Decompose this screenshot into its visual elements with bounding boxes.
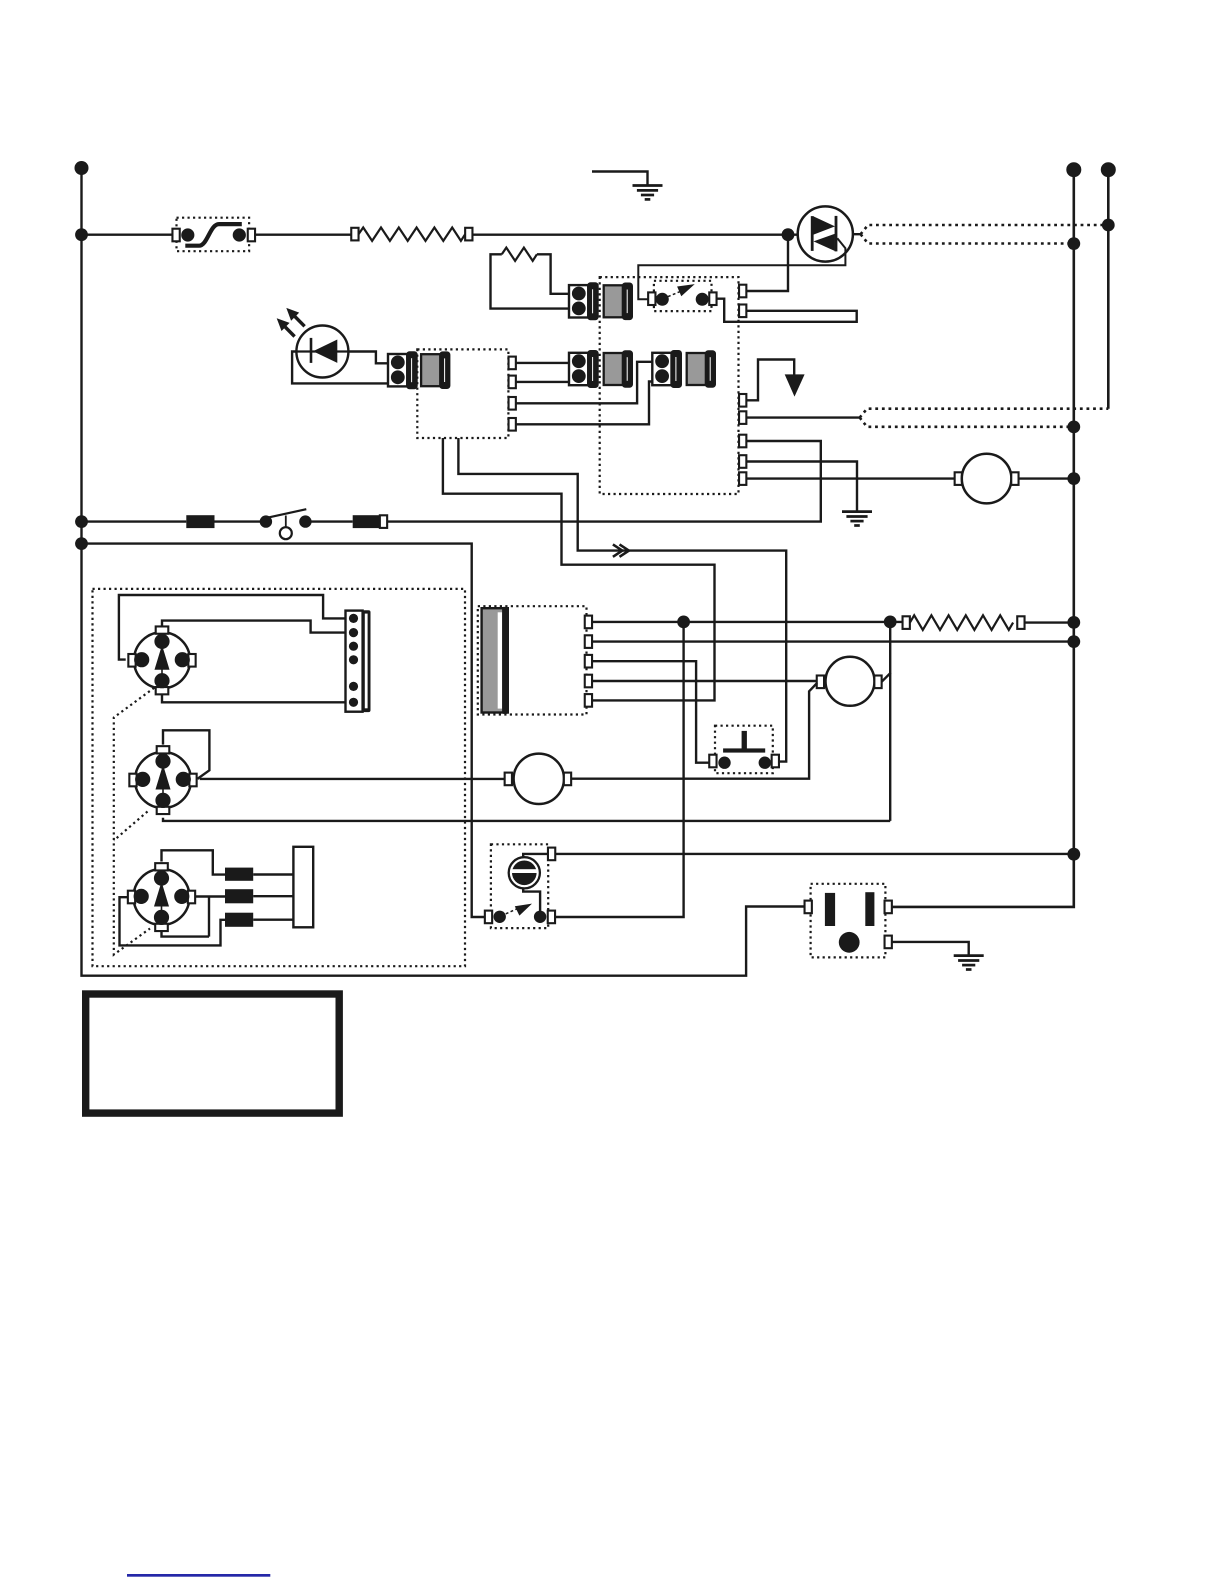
power outlet CN1 ground hole (839, 932, 860, 953)
node: junction pin I line / thermo branch (677, 616, 690, 629)
power outlet CN1 right slot (865, 892, 874, 926)
wire: pin 1 riser to top line (746, 235, 788, 291)
power outlet CN1 left slot (825, 893, 835, 926)
relay switch S2 arrow head (677, 284, 695, 296)
wire: fan motor M1 to rail A (1019, 477, 1074, 479)
thermal fuse F1 left contact dot (181, 228, 194, 241)
dispenser module A3 dotted outline (478, 606, 587, 714)
harness W1 dotted cable upper run (861, 225, 1109, 234)
node: lamp line on left rail (75, 515, 88, 528)
relay switch S2 left terminal (648, 292, 655, 305)
control board pin 6 (739, 455, 746, 468)
harness W1 dotted cable lower run (861, 234, 1074, 243)
wire: pin C to plug P4 (516, 362, 653, 404)
wire: MC2 top tab jumper to right tab (163, 730, 209, 779)
wire: pin IV to motor M2 left terminal (592, 680, 817, 682)
door switch S1 plunger stem (285, 516, 287, 528)
thermal fuse F1 left terminal (172, 229, 179, 242)
connector plug P1 (569, 284, 598, 320)
wire: top line left segment to thermal fuse (82, 233, 173, 235)
ground: top chassis ground (592, 172, 663, 200)
resistor R1 left terminal (351, 228, 358, 241)
wire: motor M2 right drop to icemaker line (889, 673, 891, 821)
resistor R3 left terminal (903, 616, 910, 629)
thermal fuse F1 S-shaped element (185, 224, 242, 246)
triac Q1 upper triangle (814, 216, 836, 234)
terminal strip TB1 contact dots (349, 614, 358, 707)
wire: top line fuse to resistor R1 (255, 233, 351, 235)
LED D1 emission arrow 1 (286, 308, 304, 326)
wire: MC3 bottom tab to branch (162, 931, 210, 937)
ground: control board ground (842, 512, 872, 526)
thermostat TH1 right terminal (548, 911, 555, 924)
node: harness W1 on rail B (1102, 219, 1115, 232)
wire: triac gate lead (638, 238, 845, 299)
start switch S3 left contact dot (718, 757, 730, 769)
wire: top line resistor to triac (472, 233, 798, 235)
ice motor connector MC2 (129, 746, 196, 814)
relay switch S2 dotted box on control board (654, 281, 712, 311)
wire: TH1 bulb to top terminal (523, 854, 548, 857)
LED D1 internal lead (297, 350, 348, 352)
display board pin D (509, 418, 516, 431)
control board pin 1 (739, 285, 746, 298)
wire: display board lead 1 to module pin V (443, 438, 715, 700)
valve connector MC3 (128, 863, 195, 931)
wire: pin 6 to board ground (746, 462, 857, 511)
LED D1 triangle (313, 340, 337, 363)
power outlet CN1 dotted box (811, 884, 886, 958)
wire: MC3 right tab to coil block 2 (195, 895, 225, 897)
door switch S1 left contact dot (260, 515, 272, 527)
wire: MC3 left tab loop to coil block 3 (120, 897, 226, 945)
wire: coil block 3 to manifold (253, 919, 293, 921)
start switch S3 dotted box (715, 726, 773, 774)
door switch S1 blade (269, 509, 307, 517)
compressor motor M2 left terminal (817, 676, 824, 689)
connector plug P4 (652, 351, 681, 387)
power outlet CN1 left terminal (805, 901, 812, 914)
harness W2 dotted cable lower run (860, 418, 1074, 427)
node: rail A top terminal (1066, 162, 1081, 177)
wire: pin I line to resistor R3 (592, 621, 903, 623)
wire: TH1 bulb to switch contact (523, 888, 540, 911)
wire: display board lead 2 to start switch (458, 438, 786, 762)
fan motor M1 left terminal (955, 472, 962, 485)
control board pin 5 (739, 435, 746, 448)
compressor motor M2 right terminal (874, 676, 881, 689)
wire: lamp line between block1 and door switch (215, 520, 266, 522)
wire: MC3 top tab to coil block 1 (162, 850, 226, 874)
wire: TH1 top terminal to rail A (555, 853, 1074, 855)
node: top-left terminal dot (75, 161, 89, 175)
display board pin B (509, 376, 516, 389)
dispenser module A3 gray header (482, 607, 508, 714)
thermostat TH1 actuator dashed line (506, 909, 518, 914)
thermostat TH1 arrow head (515, 904, 532, 916)
connector receptacle J1 on control board (604, 284, 632, 319)
wire: LED cathode return lead to plug P2 (292, 352, 389, 384)
node: defrost line on left rail (75, 537, 88, 550)
triac Q1 MT2 bar (835, 216, 838, 252)
lamp socket block 1 (186, 515, 214, 528)
thermal fuse F1 dotted enclosure (177, 218, 250, 252)
resistor R3 zigzag element (910, 615, 1013, 630)
resistor R2 left lead (491, 254, 570, 308)
wire: resistor R3 to rail A (1025, 621, 1074, 623)
start switch S3 left terminal (709, 755, 716, 768)
thermostat TH1 left contact dot (494, 911, 506, 923)
fan motor M1 body (962, 454, 1012, 504)
compressor motor M2 body (826, 657, 875, 706)
node: harness W2 on rail A (1067, 421, 1080, 434)
resistor R3 right terminal (1017, 616, 1024, 629)
node: motor M1 on rail A (1067, 472, 1080, 485)
wire: motor M2 left drop to auger line (571, 683, 817, 779)
relay switch S2 actuator dashed line (668, 292, 680, 297)
machine compartment dotted enclosure (93, 589, 466, 966)
wire: MC1 top tab to terminal strip row 2 (162, 621, 346, 633)
dotted linkage chain MC1-MC2-MC3 (114, 688, 154, 955)
triac Q1 body circle (798, 206, 853, 261)
lamp socket block 2 (353, 515, 381, 528)
relay switch S2 left contact dot (656, 293, 669, 306)
wire: thermo branch from pin I line to thermostat (555, 622, 684, 917)
relay switch S2 right contact dot (696, 293, 709, 306)
triac Q1 MT1 bar (811, 216, 814, 251)
control board pin 3 (739, 394, 746, 407)
thermostat TH1 left terminal (485, 911, 492, 924)
wire: pin 5 to lamp line (387, 441, 821, 522)
valve coil block 3 (225, 913, 253, 927)
start switch S3 right terminal (772, 755, 779, 768)
connector receptacle J4 on control board (687, 351, 715, 386)
wire: pin D to plug P4 (516, 382, 653, 425)
display board pin C (509, 397, 516, 410)
control board pin 2 (739, 305, 746, 318)
thermostat TH1 top terminal (548, 848, 555, 861)
wire: coil block 2 to manifold (253, 895, 293, 897)
wire: lamp line between switch and block2 (305, 520, 352, 522)
control board pin 4 (739, 411, 746, 424)
control board pin 7 (739, 472, 746, 485)
wire: coil block 1 to manifold (253, 873, 293, 875)
auger motor M3 right terminal (564, 773, 571, 786)
node: resistor R3 on rail A (1067, 616, 1080, 629)
wire: defrost line to thermostat (82, 544, 486, 917)
node: junction L1/top wire (75, 228, 88, 241)
wire: right vertical rail B (1107, 170, 1110, 409)
wire: triac output to harness tip (853, 233, 861, 235)
LED D1 emission arrow 2 (277, 318, 295, 336)
wire: MC1 left tab loop to terminal strip row 1 (119, 595, 346, 660)
ground: outlet earth ground (954, 956, 984, 970)
fan motor M1 right terminal (1011, 472, 1018, 485)
wire: pin 7 to fan motor M1 (746, 477, 955, 479)
resistor R2 right lead (537, 254, 569, 293)
wire: left supply rail vertical and bottom rail (82, 168, 805, 976)
node: junction at triac MT1 branch (782, 228, 795, 241)
terminal strip TB1 body (346, 610, 371, 712)
harness W2 dotted cable upper run (860, 409, 1109, 418)
thermostat TH1 right contact dot (534, 911, 546, 923)
auger motor M3 body (514, 754, 564, 804)
chevron: cable continuation marker (613, 544, 629, 556)
wire: heater loop from pin 2 to switch S2 (717, 299, 857, 322)
note box (empty legend) (86, 994, 340, 1113)
wire: pin 4 to harness W2 tip (746, 416, 859, 418)
node: TH1 line on rail A (1067, 848, 1080, 861)
valve manifold body (293, 847, 313, 928)
resistor R2 zigzag element (502, 248, 537, 261)
thermal fuse F1 right contact dot (233, 228, 246, 241)
wire: lamp line left segment (82, 520, 187, 522)
LED D1 cathode bar (310, 338, 313, 363)
connector plug P3 (569, 351, 598, 387)
display board pin A (509, 357, 516, 370)
auger motor connector MC1 (128, 626, 195, 694)
node: harness W1 on rail A (1067, 237, 1080, 250)
arrow: program down arrow (785, 374, 805, 396)
door switch S1 plunger circle (280, 527, 292, 539)
wire: pin II line to rail A (592, 640, 1074, 642)
wire: motor M2 right riser to pin I line (882, 622, 891, 682)
relay switch S2 right terminal (709, 292, 716, 305)
defrost thermostat TH1 dotted box (491, 844, 548, 928)
door switch S1 right contact dot (299, 515, 311, 527)
LED D1 body circle (296, 326, 348, 378)
node: pin II line on rail A (1067, 635, 1080, 648)
valve coil block 2 (225, 889, 253, 903)
connector receptacle J3 on control board (604, 351, 632, 386)
wire: pin 3 to program arrow (746, 360, 794, 401)
wire: pin III to start switch left (592, 661, 710, 763)
wire: pin A to plug P3 (516, 362, 569, 364)
connector plug P2 (LED harness) (388, 352, 417, 388)
thermostat TH1 sensor bulb (509, 857, 540, 888)
wire: LED anode lead to plug P2 (348, 352, 389, 364)
wire: right vertical rail A (892, 170, 1074, 907)
triac Q1 lower triangle (814, 234, 835, 251)
wire: pin B to plug P3 (516, 381, 569, 383)
connector receptacle J2 on display board (421, 353, 449, 388)
lamp line terminal tab (380, 515, 387, 528)
node: rail B top terminal (1101, 162, 1116, 177)
auger motor M3 left terminal (505, 773, 512, 786)
start switch S3 right contact dot (759, 757, 771, 769)
start switch S3 T actuator (723, 731, 765, 753)
dispenser module pin I (585, 616, 592, 629)
dispenser module pin IV (585, 675, 592, 688)
display board A2 dotted outline (417, 349, 508, 438)
power outlet CN1 ground terminal (885, 936, 892, 949)
dispenser module pin V (585, 694, 592, 707)
wire: MC2 right tab to auger motor M3 (200, 778, 505, 780)
power outlet CN1 right terminal (885, 901, 892, 914)
control board A1 dotted outline (600, 277, 739, 494)
wire: MC3 right branch vertical (208, 897, 210, 937)
wire: outlet ground lead (892, 942, 969, 955)
node: junction pin I line / motor M2 branch (884, 616, 897, 629)
resistor R1 zigzag element (359, 228, 466, 241)
hyperlink underline mark (127, 1574, 270, 1577)
thermal fuse F1 right terminal (248, 229, 255, 242)
wire: MC1 bottom tab to terminal strip row 6 (162, 695, 346, 703)
dispenser module pin III (585, 655, 592, 668)
resistor R1 right terminal (465, 228, 472, 241)
wire: MC2 bottom tab to icemaker line (163, 818, 890, 821)
valve coil block 1 (225, 868, 253, 881)
dispenser module pin II (585, 635, 592, 648)
